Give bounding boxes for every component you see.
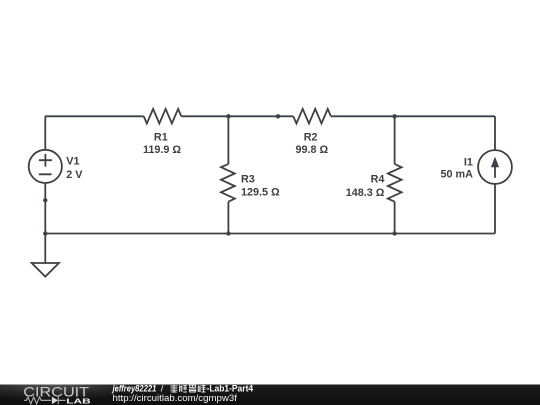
svg-text:2 V: 2 V: [66, 169, 83, 181]
resistor R1: [144, 109, 182, 124]
logo gloss glow: [0, 385, 118, 405]
wire left vertical upper: [44, 116, 46, 150]
resistor R4: [388, 164, 402, 202]
svg-text:V1: V1: [66, 156, 79, 168]
svg-text:148.3 Ω: 148.3 Ω: [346, 187, 385, 199]
current source I1: [478, 150, 512, 184]
wire right vertical lower: [494, 184, 496, 234]
wire right vertical upper: [494, 116, 496, 150]
resistor R2: [293, 109, 331, 124]
ground: [32, 263, 59, 277]
wire R4 branch lower: [394, 202, 396, 234]
node dot left bottom: [43, 231, 47, 235]
svg-text:R4: R4: [371, 173, 385, 185]
voltage source V1: [29, 150, 62, 183]
wire R3 branch lower: [227, 202, 229, 234]
svg-text:R2: R2: [304, 131, 318, 143]
wire top-left horizontal: [45, 115, 144, 117]
wire top middle horizontal: [181, 115, 293, 117]
svg-text:129.5 Ω: 129.5 Ω: [241, 187, 280, 199]
svg-text:R1: R1: [154, 131, 168, 143]
node dot top R3: [226, 114, 230, 118]
resistor R3: [221, 164, 235, 202]
node dot left mid: [43, 198, 47, 202]
wire top right horizontal: [331, 115, 495, 117]
current source I1 arrowhead: [491, 157, 499, 168]
wire R3 branch upper: [227, 116, 229, 164]
svg-text:R3: R3: [241, 173, 255, 185]
node dot top R4: [392, 114, 396, 118]
node dot bottom R4: [392, 231, 396, 235]
node dot top mid: [276, 114, 280, 118]
footer CJK title glyphs: [170, 385, 205, 392]
footer bar: [0, 385, 540, 405]
svg-text:50 mA: 50 mA: [440, 169, 473, 181]
node dot bottom R3: [226, 231, 230, 235]
wire R4 branch upper: [394, 116, 396, 164]
svg-text:99.8 Ω: 99.8 Ω: [295, 144, 328, 156]
logo diode: [52, 397, 58, 405]
svg-text:LAB: LAB: [66, 397, 90, 405]
svg-text:http://circuitlab.com/cgmpw3f: http://circuitlab.com/cgmpw3f: [113, 393, 238, 403]
wire bottom horizontal: [45, 233, 495, 235]
wire left vertical lower: [44, 183, 46, 263]
logo resistor squiggle: [24, 397, 51, 404]
svg-text:I1: I1: [464, 157, 473, 169]
svg-text:119.9 Ω: 119.9 Ω: [143, 144, 181, 156]
